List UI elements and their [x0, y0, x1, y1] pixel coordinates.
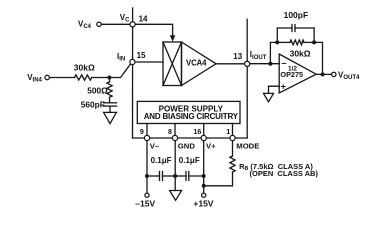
svg-text:30kΩ: 30kΩ — [290, 48, 311, 58]
VCA multiplier box with X — [163, 42, 182, 86]
resistor 30k feedback branch — [277, 41, 290, 43]
wire cap2 to V+ rail — [189, 175, 204, 177]
junction feedback right — [312, 40, 316, 44]
wire V- rail down — [146, 138, 148, 193]
capacitor C1 0.1uF plates — [159, 172, 161, 181]
pin 14 circle — [130, 22, 135, 27]
ground symbol input network — [104, 112, 117, 123]
wire VC to VCA arrow (horizontal+vertical) — [133, 24, 173, 36]
svg-text:+15V: +15V — [193, 199, 213, 209]
wire cap1 to GND rail — [163, 175, 176, 177]
pin 15 circle — [130, 59, 135, 64]
wire pin15 to VCA box — [132, 61, 163, 63]
wire chip bottom edge — [133, 137, 248, 139]
svg-text:OP275: OP275 — [280, 70, 303, 79]
svg-text:0.1μF: 0.1μF — [151, 156, 172, 165]
wire IOUT stub above pin13 — [246, 19, 248, 64]
ground symbol op-amp plus — [264, 93, 274, 101]
wire pin13 to op-amp minus input — [247, 63, 279, 65]
svg-text:–15V: –15V — [135, 199, 155, 209]
wire chip right edge — [246, 64, 248, 138]
wire pin16 from box to chip edge — [203, 124, 205, 139]
svg-text:V–: V– — [150, 141, 160, 150]
capacitor 100pF branch — [277, 27, 292, 29]
junction node A input network — [107, 76, 111, 80]
wire RB bottom to V+ rail — [204, 172, 233, 186]
resistor RB zigzag — [230, 156, 235, 172]
wire GND rail to cap2 — [175, 175, 186, 177]
wire GND rail down — [174, 138, 176, 191]
svg-text:V+: V+ — [206, 141, 216, 150]
op-amp triangle VCA4 — [182, 42, 217, 86]
wire pin8 from box to chip edge — [174, 124, 176, 139]
wire chip left edge (pin14 to pin15 to bottom corner) — [132, 24, 134, 138]
junction op-amp output — [321, 72, 325, 76]
svg-text:MODE: MODE — [236, 141, 259, 150]
power supply box — [137, 101, 240, 123]
svg-text:30kΩ: 30kΩ — [74, 63, 95, 73]
svg-text:1: 1 — [226, 129, 230, 136]
wire feedback left vertical to cap branch — [276, 28, 278, 42]
svg-text:13: 13 — [233, 52, 242, 61]
wire MODE rail down to RB — [232, 138, 234, 156]
wire 30k to junction node A — [92, 77, 110, 79]
ground symbol GND pin — [170, 191, 182, 201]
wire feedback right to output — [314, 42, 322, 74]
terminal +15V — [202, 193, 206, 197]
resistor 500 vertical zigzag — [107, 78, 112, 103]
capacitor C2 0.1uF plates — [185, 172, 187, 181]
resistor 30k input zigzag — [75, 75, 92, 80]
junction minus-wire feedback tap — [268, 62, 272, 66]
junction V+ RB row — [202, 184, 206, 188]
op-amp U1 triangle 1/2 OP275 — [279, 54, 316, 93]
terminal VOUT4 — [332, 72, 336, 76]
svg-text:0.1μF: 0.1μF — [179, 156, 200, 165]
svg-text:500Ω: 500Ω — [87, 86, 108, 96]
svg-text:15: 15 — [137, 51, 146, 60]
junction V- cap row — [145, 174, 149, 178]
svg-text:(OPEN CLASS AB): (OPEN CLASS AB) — [250, 169, 319, 178]
wire node A diagonal to pin15 — [109, 64, 130, 78]
wire pin1 from box to chip edge — [232, 124, 234, 139]
svg-text:16: 16 — [194, 129, 202, 136]
svg-text:GND: GND — [178, 141, 196, 150]
wire op-amp plus input to ground — [269, 86, 280, 93]
pin 16 circle — [201, 135, 206, 140]
svg-text:AND BIASING CIRCUITRY: AND BIASING CIRCUITRY — [144, 112, 239, 121]
wire pin9 from box to chip edge — [146, 124, 148, 139]
terminal VC4 — [97, 22, 101, 26]
wire V+ rail down — [203, 138, 205, 193]
svg-text:VCA4: VCA4 — [186, 59, 207, 68]
junction GND cap row — [173, 174, 177, 178]
pin 1 circle — [230, 135, 235, 140]
wire VC4 terminal to pin14 — [101, 23, 132, 25]
svg-text:560pF: 560pF — [81, 99, 105, 109]
wire VCA apex to pin13 — [216, 63, 247, 65]
svg-text:9: 9 — [140, 129, 144, 136]
arrowhead into VCA top — [170, 35, 175, 41]
wire feedback tap up from minus wire — [270, 42, 277, 63]
terminal VIN4 — [45, 75, 49, 79]
pin 8 circle — [172, 135, 177, 140]
wire bypass cap row V- to cap1 — [147, 175, 160, 177]
junction V+ cap row — [202, 174, 206, 178]
terminal -15V — [145, 193, 149, 197]
wire VC stub top — [132, 8, 134, 24]
svg-text:–: – — [282, 58, 287, 68]
pin 13 circle — [245, 61, 250, 66]
wire op-amp output to VOUT4 — [316, 73, 332, 75]
svg-text:14: 14 — [139, 14, 148, 23]
wire VIN4 terminal to 30k resistor — [49, 77, 74, 79]
svg-text:8: 8 — [168, 129, 172, 136]
wire 560pF to ground — [109, 106, 111, 112]
wire feedback right vertical — [313, 28, 315, 42]
pin 9 circle — [144, 135, 149, 140]
svg-text:100pF: 100pF — [284, 10, 309, 20]
junction feedback left — [275, 40, 279, 44]
capacitor 560pF plates — [104, 102, 117, 104]
svg-text:+: + — [281, 81, 286, 91]
